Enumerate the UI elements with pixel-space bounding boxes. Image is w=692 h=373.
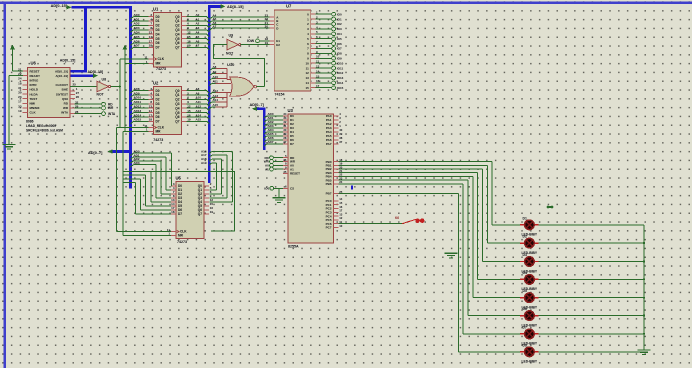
U5 pin CLK stub <box>171 231 176 233</box>
bus tag arrow at U6 A[16..19] <box>93 74 98 78</box>
LED D5 <box>520 293 538 303</box>
svg-text:IO10: IO10 <box>337 61 344 65</box>
svg-text:25: 25 <box>73 83 77 87</box>
bus A[8..15] vertical <box>208 5 211 183</box>
U5 input staircase wires from AD[0..7] bus <box>123 153 171 214</box>
U2 pin D5 stub <box>149 112 154 114</box>
LED D3 <box>520 257 538 267</box>
svg-text:U5: U5 <box>176 175 182 180</box>
wire IOW terminal to U7 E1 <box>259 40 269 42</box>
svg-text:AD7: AD7 <box>134 44 140 48</box>
terminal IO11 <box>332 66 336 70</box>
U7 select input net labels <box>213 13 217 28</box>
U5 pin D5 stub <box>171 205 176 207</box>
U3 pin PA7 stub <box>334 143 339 145</box>
wire RESET to power <box>13 51 24 72</box>
U5 pin D2 stub <box>171 193 176 195</box>
svg-text:AD4: AD4 <box>134 31 140 35</box>
U3 pin PB6 stub <box>334 183 339 185</box>
U1 output wires to A bus <box>187 17 210 50</box>
svg-text:Q0: Q0 <box>175 89 179 93</box>
svg-text:IO1: IO1 <box>337 17 342 21</box>
U3 pin D0 stub <box>283 115 288 117</box>
svg-text:Q3: Q3 <box>175 28 179 32</box>
svg-text:IO2: IO2 <box>337 22 342 26</box>
U6 pin WR stub <box>70 107 75 109</box>
svg-text:D7: D7 <box>523 325 527 329</box>
svg-text:19: 19 <box>18 109 22 113</box>
U2 pin Q6 stub <box>182 116 187 118</box>
U3 pin PC3 stub <box>334 211 339 213</box>
terminal IO6 <box>332 42 336 46</box>
bus tag arrow AD[0..7] at U5 <box>108 149 113 153</box>
U7 pin 6 stub <box>311 43 316 45</box>
U1 pin Q2 stub <box>182 24 187 26</box>
wire U10 output <box>257 86 265 88</box>
svg-text:27: 27 <box>283 140 287 144</box>
svg-text:Q7: Q7 <box>175 46 179 50</box>
svg-text:20: 20 <box>265 25 269 29</box>
svg-text:A7: A7 <box>213 25 217 29</box>
wire MR to U2 <box>123 130 148 132</box>
svg-text:37: 37 <box>339 140 343 144</box>
svg-text:CLKOUT: CLKOUT <box>56 83 69 87</box>
svg-text:A1: A1 <box>196 17 200 21</box>
U1 input rip wires from AD bus <box>130 17 148 50</box>
latch U5 74273 body <box>176 182 204 239</box>
svg-text:18: 18 <box>149 118 153 122</box>
svg-text:IO7: IO7 <box>337 47 342 51</box>
bus branch vertical to U6 <box>84 6 87 71</box>
svg-text:AD14: AD14 <box>134 113 142 117</box>
power terminal +5V at MR net <box>123 45 128 52</box>
terminal IO3 <box>332 27 336 31</box>
U7 pin 10 stub <box>311 62 316 64</box>
svg-text:IO5: IO5 <box>337 37 342 41</box>
wire terminal to U3 RD <box>273 157 283 159</box>
svg-text:Q6: Q6 <box>175 115 179 119</box>
svg-text:PB7: PB7 <box>326 192 332 196</box>
U1 pin D6 stub <box>149 42 154 44</box>
svg-text:8255A: 8255A <box>288 245 299 249</box>
U6 pin RESET stub red <box>23 70 28 72</box>
svg-text:74273: 74273 <box>177 240 187 244</box>
U7 pin E1 stub <box>269 40 274 42</box>
svg-text:U3: U3 <box>288 108 294 113</box>
switch K6 <box>402 219 424 224</box>
svg-text:D7: D7 <box>156 120 160 124</box>
U2 pin D3 stub <box>149 103 154 105</box>
svg-text:18: 18 <box>18 81 22 85</box>
U1 pin D7 stub <box>149 46 154 48</box>
U5 pin Q6 stub <box>204 209 209 211</box>
svg-text:U7: U7 <box>286 4 292 9</box>
LED D8 <box>520 347 538 357</box>
wire terminal to U3 A1 <box>273 168 283 170</box>
svg-text:LED-BIBY: LED-BIBY <box>522 360 538 364</box>
bus AD[0..7] tag to U3 <box>257 108 266 151</box>
svg-text:A8: A8 <box>196 87 200 91</box>
U5 CLK triangle <box>176 230 179 233</box>
bus stub U6 A[16..19] <box>70 74 93 77</box>
wire U6 RD to terminal <box>75 103 102 105</box>
U3 pin PA5 stub <box>334 135 339 137</box>
wire U7 output 5 to terminal <box>315 38 331 40</box>
ground symbol below switch <box>445 253 458 258</box>
U5 pin Q4 stub <box>204 201 209 203</box>
svg-text:30: 30 <box>18 91 22 95</box>
svg-text:D5: D5 <box>156 37 160 41</box>
wire U7 output 7 to terminal <box>315 48 331 50</box>
bus AD[0..7] tag at U5 feed <box>113 150 132 153</box>
svg-text:A15: A15 <box>196 118 202 122</box>
svg-text:A[16..19]: A[16..19] <box>55 74 68 78</box>
terminal IOW at U7 E1 <box>256 39 260 43</box>
U5 pin Q3 stub <box>204 197 209 199</box>
U5 pin Q7 stub <box>204 213 209 215</box>
terminal RD <box>102 102 106 106</box>
svg-text:A14: A14 <box>196 113 202 117</box>
U2 pin Q3 stub <box>182 103 187 105</box>
svg-text:A19: A19 <box>201 161 207 165</box>
svg-text:AD[0..7]: AD[0..7] <box>88 151 103 155</box>
svg-text:K6: K6 <box>395 216 399 220</box>
svg-text:AD11: AD11 <box>134 100 142 104</box>
svg-text:IO0: IO0 <box>337 12 342 16</box>
U3 pin PB1 stub <box>334 164 339 166</box>
U3 pin D1 stub <box>283 119 288 121</box>
U3 pin PC2 stub <box>334 208 339 210</box>
U6 pin INTR stub <box>23 84 28 86</box>
svg-text:RESET: RESET <box>30 69 40 73</box>
U2 pin MR stub <box>149 130 154 132</box>
wire U7 output 2 to terminal <box>315 23 331 25</box>
U7 pin 5 stub <box>311 38 316 40</box>
U6 right stub pin 1 <box>70 90 75 92</box>
svg-text:D1: D1 <box>523 216 527 220</box>
U1 pin Q3 stub <box>182 29 187 31</box>
svg-text:A4: A4 <box>196 31 200 35</box>
wire U6 INTA to terminal <box>75 113 102 115</box>
svg-text:A5: A5 <box>196 35 200 39</box>
svg-text:AD10: AD10 <box>134 96 142 100</box>
U7 pin 0 stub <box>311 13 316 15</box>
svg-text:A11: A11 <box>213 80 219 84</box>
U2 CLK triangle <box>154 126 157 129</box>
svg-text:AD12: AD12 <box>134 105 142 109</box>
LED D6 <box>520 311 538 321</box>
svg-text:A8: A8 <box>213 65 217 69</box>
svg-text:A11: A11 <box>196 100 202 104</box>
terminal A1 <box>270 167 274 171</box>
U1 pin D3 stub <box>149 29 154 31</box>
wire U8 output to CLK net <box>111 86 120 88</box>
svg-text:D4: D4 <box>156 106 160 110</box>
U5 pin D6 stub <box>171 209 176 211</box>
LED D2 <box>520 238 538 248</box>
svg-text:A10: A10 <box>196 96 202 100</box>
svg-text:D3: D3 <box>523 253 527 257</box>
U2 output net labels A8-A15 <box>196 87 202 122</box>
svg-text:IO3: IO3 <box>337 27 342 31</box>
svg-text:INT0G: INT0G <box>30 79 40 83</box>
svg-text:D5: D5 <box>523 289 527 293</box>
U7 pin 3 stub <box>311 28 316 30</box>
U5 pin Q0 stub <box>204 185 209 187</box>
U1 output net labels A0-A7 <box>196 13 200 48</box>
wire U7 output 9 to terminal <box>315 57 331 59</box>
svg-text:74154: 74154 <box>275 92 285 96</box>
U1 pin CLK stub <box>149 58 154 60</box>
svg-text:IO15: IO15 <box>337 86 344 90</box>
U6 pin INTA stub <box>70 113 75 115</box>
or-gate U10 body <box>230 77 254 96</box>
U1 pin Q4 stub <box>182 33 187 35</box>
svg-text:AD[0..15]: AD[0..15] <box>55 69 68 73</box>
U3 pin D5 stub <box>283 135 288 137</box>
svg-text:Q7: Q7 <box>198 212 202 216</box>
terminal IO2 <box>332 22 336 26</box>
terminal IO1 <box>332 17 336 21</box>
wire U7 output 4 to terminal <box>315 33 331 35</box>
svg-text:D2: D2 <box>156 24 160 28</box>
svg-text:SRCFILE=8086_led.ASM: SRCFILE=8086_led.ASM <box>26 129 63 133</box>
U3 pin PB4 stub <box>334 175 339 177</box>
wire CLK to U5 <box>117 231 171 233</box>
U2 pin Q0 stub <box>182 90 187 92</box>
LED D1 <box>520 220 538 230</box>
U6 pin TEST stub <box>23 98 28 100</box>
U6 value labels 8086 / properties <box>26 120 63 133</box>
svg-text:Q6: Q6 <box>175 41 179 45</box>
svg-text:U1: U1 <box>153 6 159 11</box>
wire CLK to U2 <box>117 127 149 129</box>
U2 pin Q5 stub <box>182 112 187 114</box>
svg-text:MR: MR <box>156 62 162 66</box>
svg-text:PC7: PC7 <box>326 226 332 230</box>
svg-text:19: 19 <box>210 210 214 214</box>
svg-text:14: 14 <box>149 35 153 39</box>
power terminal +5V at RESET <box>10 45 15 52</box>
svg-text:A10: A10 <box>213 75 219 79</box>
U7 pin 1 stub <box>311 18 316 20</box>
svg-text:D7: D7 <box>156 46 160 50</box>
U3 pin PC5 stub <box>334 219 339 221</box>
U6 pin READY stub <box>23 75 28 77</box>
svg-text:18: 18 <box>149 44 153 48</box>
latch U1 74273 body <box>154 13 182 67</box>
svg-text:A7: A7 <box>196 44 200 48</box>
U5 pin D1 stub <box>171 189 176 191</box>
U6 pin CLKOUT wire to U8 <box>70 86 97 88</box>
svg-text:D0: D0 <box>156 89 160 93</box>
svg-text:AD0: AD0 <box>134 13 140 17</box>
svg-text:CS: CS <box>290 187 294 191</box>
U5 pin D7 stub <box>171 213 176 215</box>
svg-text:NOT: NOT <box>226 52 234 56</box>
U6 pin RESET stub <box>23 70 28 72</box>
wires PB0-PB7 staircase to LEDs <box>339 162 521 352</box>
wire U7 output 12 to terminal <box>315 72 331 74</box>
U3 pin PA6 stub <box>334 139 339 141</box>
U2 pin D7 stub <box>149 120 154 122</box>
svg-text:AD[0..15]: AD[0..15] <box>51 4 68 8</box>
wire READY to ground <box>9 76 23 145</box>
wire MR to U5 <box>123 234 171 236</box>
svg-text:A9: A9 <box>196 91 200 95</box>
U7 pin 11 stub <box>311 67 316 69</box>
svg-text:Q4: Q4 <box>175 32 179 36</box>
svg-text:Q1: Q1 <box>175 93 179 97</box>
wire U7 output 3 to terminal <box>315 28 331 30</box>
U5 pin Q2 stub <box>204 193 209 195</box>
U3 pin RD stub <box>283 157 288 159</box>
U2 pin D0 stub <box>149 90 154 92</box>
U3 pin PB7 stub <box>334 193 339 195</box>
U3 pin PC0 stub <box>334 200 339 202</box>
U6 pin RD stub <box>70 103 75 105</box>
U2 pin Q7 stub <box>182 120 187 122</box>
U7 pin 14 stub <box>311 82 316 84</box>
svg-text:NOT: NOT <box>97 93 105 97</box>
svg-text:U2: U2 <box>153 80 159 85</box>
U6 pin NMI stub <box>23 102 28 104</box>
U7 pin D stub <box>269 27 274 29</box>
svg-text:INTR: INTR <box>30 83 38 87</box>
wire U7 output 1 to terminal <box>315 18 331 20</box>
U7 pin E2 stub <box>269 44 274 46</box>
U3 data rip labels AD0-AD7 <box>268 112 274 144</box>
svg-text:D7: D7 <box>290 142 294 146</box>
wire U7 output 11 to terminal <box>315 67 331 69</box>
svg-text:AD3: AD3 <box>134 26 140 30</box>
terminal IO10 <box>332 61 336 65</box>
U3 pin RESET stub <box>283 173 288 175</box>
wire CLK to U1 <box>120 58 149 60</box>
svg-text:U8: U8 <box>102 78 107 82</box>
PPI U3 8255 body <box>288 114 334 243</box>
bus tag arrow AD[0..15] <box>67 5 72 9</box>
svg-text:WR: WR <box>108 106 114 110</box>
svg-text:D0: D0 <box>156 15 160 19</box>
U3 data input rips from AD[0..7] bus <box>264 116 283 146</box>
svg-text:13: 13 <box>305 76 309 80</box>
wire U7 output 8 to terminal <box>315 52 331 54</box>
terminal IO14 <box>332 81 336 85</box>
U3 pin D4 stub <box>283 131 288 133</box>
inverter U8 body <box>97 81 111 92</box>
svg-text:12: 12 <box>305 71 309 75</box>
svg-text:Q2: Q2 <box>175 98 179 102</box>
svg-text:WR: WR <box>63 106 69 110</box>
svg-text:17: 17 <box>18 100 22 104</box>
svg-text:D3: D3 <box>156 102 160 106</box>
U7 pin 4 stub <box>311 33 316 35</box>
U7 pin A stub <box>269 16 274 18</box>
U6 pin MN/MX stub <box>23 107 28 109</box>
svg-text:Q3: Q3 <box>175 102 179 106</box>
svg-text:READY: READY <box>30 74 41 78</box>
terminal IO13 <box>332 76 336 80</box>
wire terminal to U3 A0 <box>273 164 283 166</box>
svg-text:A13: A13 <box>196 109 202 113</box>
U3 pin PB3 stub <box>334 172 339 174</box>
U3 pin CS stub <box>283 187 288 189</box>
U3 pin PB5 stub <box>334 179 339 181</box>
U2 pin Q1 stub <box>182 94 187 96</box>
svg-text:A15: A15 <box>213 103 219 107</box>
U7 pin 15 stub <box>311 87 316 89</box>
svg-text:QS0: QS0 <box>62 97 68 101</box>
U1 pin Q6 stub <box>182 42 187 44</box>
U3 pin PA2 stub <box>334 123 339 125</box>
svg-text:A3: A3 <box>196 26 200 30</box>
svg-text:U10: U10 <box>227 62 235 67</box>
CPU U6 8086 body <box>28 68 71 118</box>
terminal WR <box>102 106 106 110</box>
bus AD[0..15] main vertical <box>129 6 132 189</box>
U7 pin 7 stub <box>311 48 316 50</box>
wire MR to U1 <box>125 63 149 65</box>
wire long loop over U5 <box>136 171 235 231</box>
svg-text:31: 31 <box>18 86 22 90</box>
svg-text:IO11: IO11 <box>337 66 344 70</box>
LED D4 <box>520 275 538 285</box>
svg-text:NMI: NMI <box>30 102 36 106</box>
U2 pin D1 stub <box>149 94 154 96</box>
U6 pin HLDA stub <box>23 93 28 95</box>
U3 pin PB0 stub <box>334 161 339 163</box>
svg-text:E2: E2 <box>276 43 280 47</box>
U7 select input wires from A bus <box>209 17 269 31</box>
svg-text:MN/MX: MN/MX <box>30 106 40 110</box>
svg-text:26: 26 <box>76 95 80 99</box>
svg-text:AD1: AD1 <box>134 17 140 21</box>
U3 pin PA1 stub <box>334 119 339 121</box>
terminal IO0 <box>332 12 336 16</box>
svg-text:IO4: IO4 <box>337 32 342 36</box>
ground symbol at U3 CS <box>273 198 286 203</box>
U2 output wires to A bus <box>187 91 210 124</box>
svg-text:A0: A0 <box>196 13 200 17</box>
svg-text:23: 23 <box>18 95 22 99</box>
svg-text:U9: U9 <box>229 33 234 37</box>
U10 output bubble <box>254 85 257 88</box>
U3 pin PC4 stub <box>334 215 339 217</box>
wire terminal to U3 WR <box>273 161 283 163</box>
U5 pin D3 stub <box>171 197 176 199</box>
svg-text:AD15: AD15 <box>134 118 142 122</box>
wire U7 output 10 to terminal <box>315 62 331 64</box>
svg-text:A2: A2 <box>196 22 200 26</box>
U5 pin Q1 stub <box>204 189 209 191</box>
U2 pin CLK stub <box>149 127 154 129</box>
svg-text:D4: D4 <box>156 32 160 36</box>
U1 pin Q7 stub <box>182 46 187 48</box>
U7 pin 2 stub <box>311 23 316 25</box>
U1 pin D2 stub <box>149 24 154 26</box>
svg-text:17: 17 <box>149 113 153 117</box>
U3 pin PC6 stub <box>334 223 339 225</box>
U1 pin D1 stub <box>149 20 154 22</box>
wire U7 output 14 to terminal <box>315 82 331 84</box>
svg-text:AD3: AD3 <box>134 161 140 165</box>
svg-text:19: 19 <box>265 41 269 45</box>
svg-text:D2: D2 <box>156 98 160 102</box>
wire CLK net upper vertical <box>119 59 121 128</box>
U3 pin D3 stub <box>283 127 288 129</box>
bus AD[0..15] main horizontal <box>72 6 132 9</box>
